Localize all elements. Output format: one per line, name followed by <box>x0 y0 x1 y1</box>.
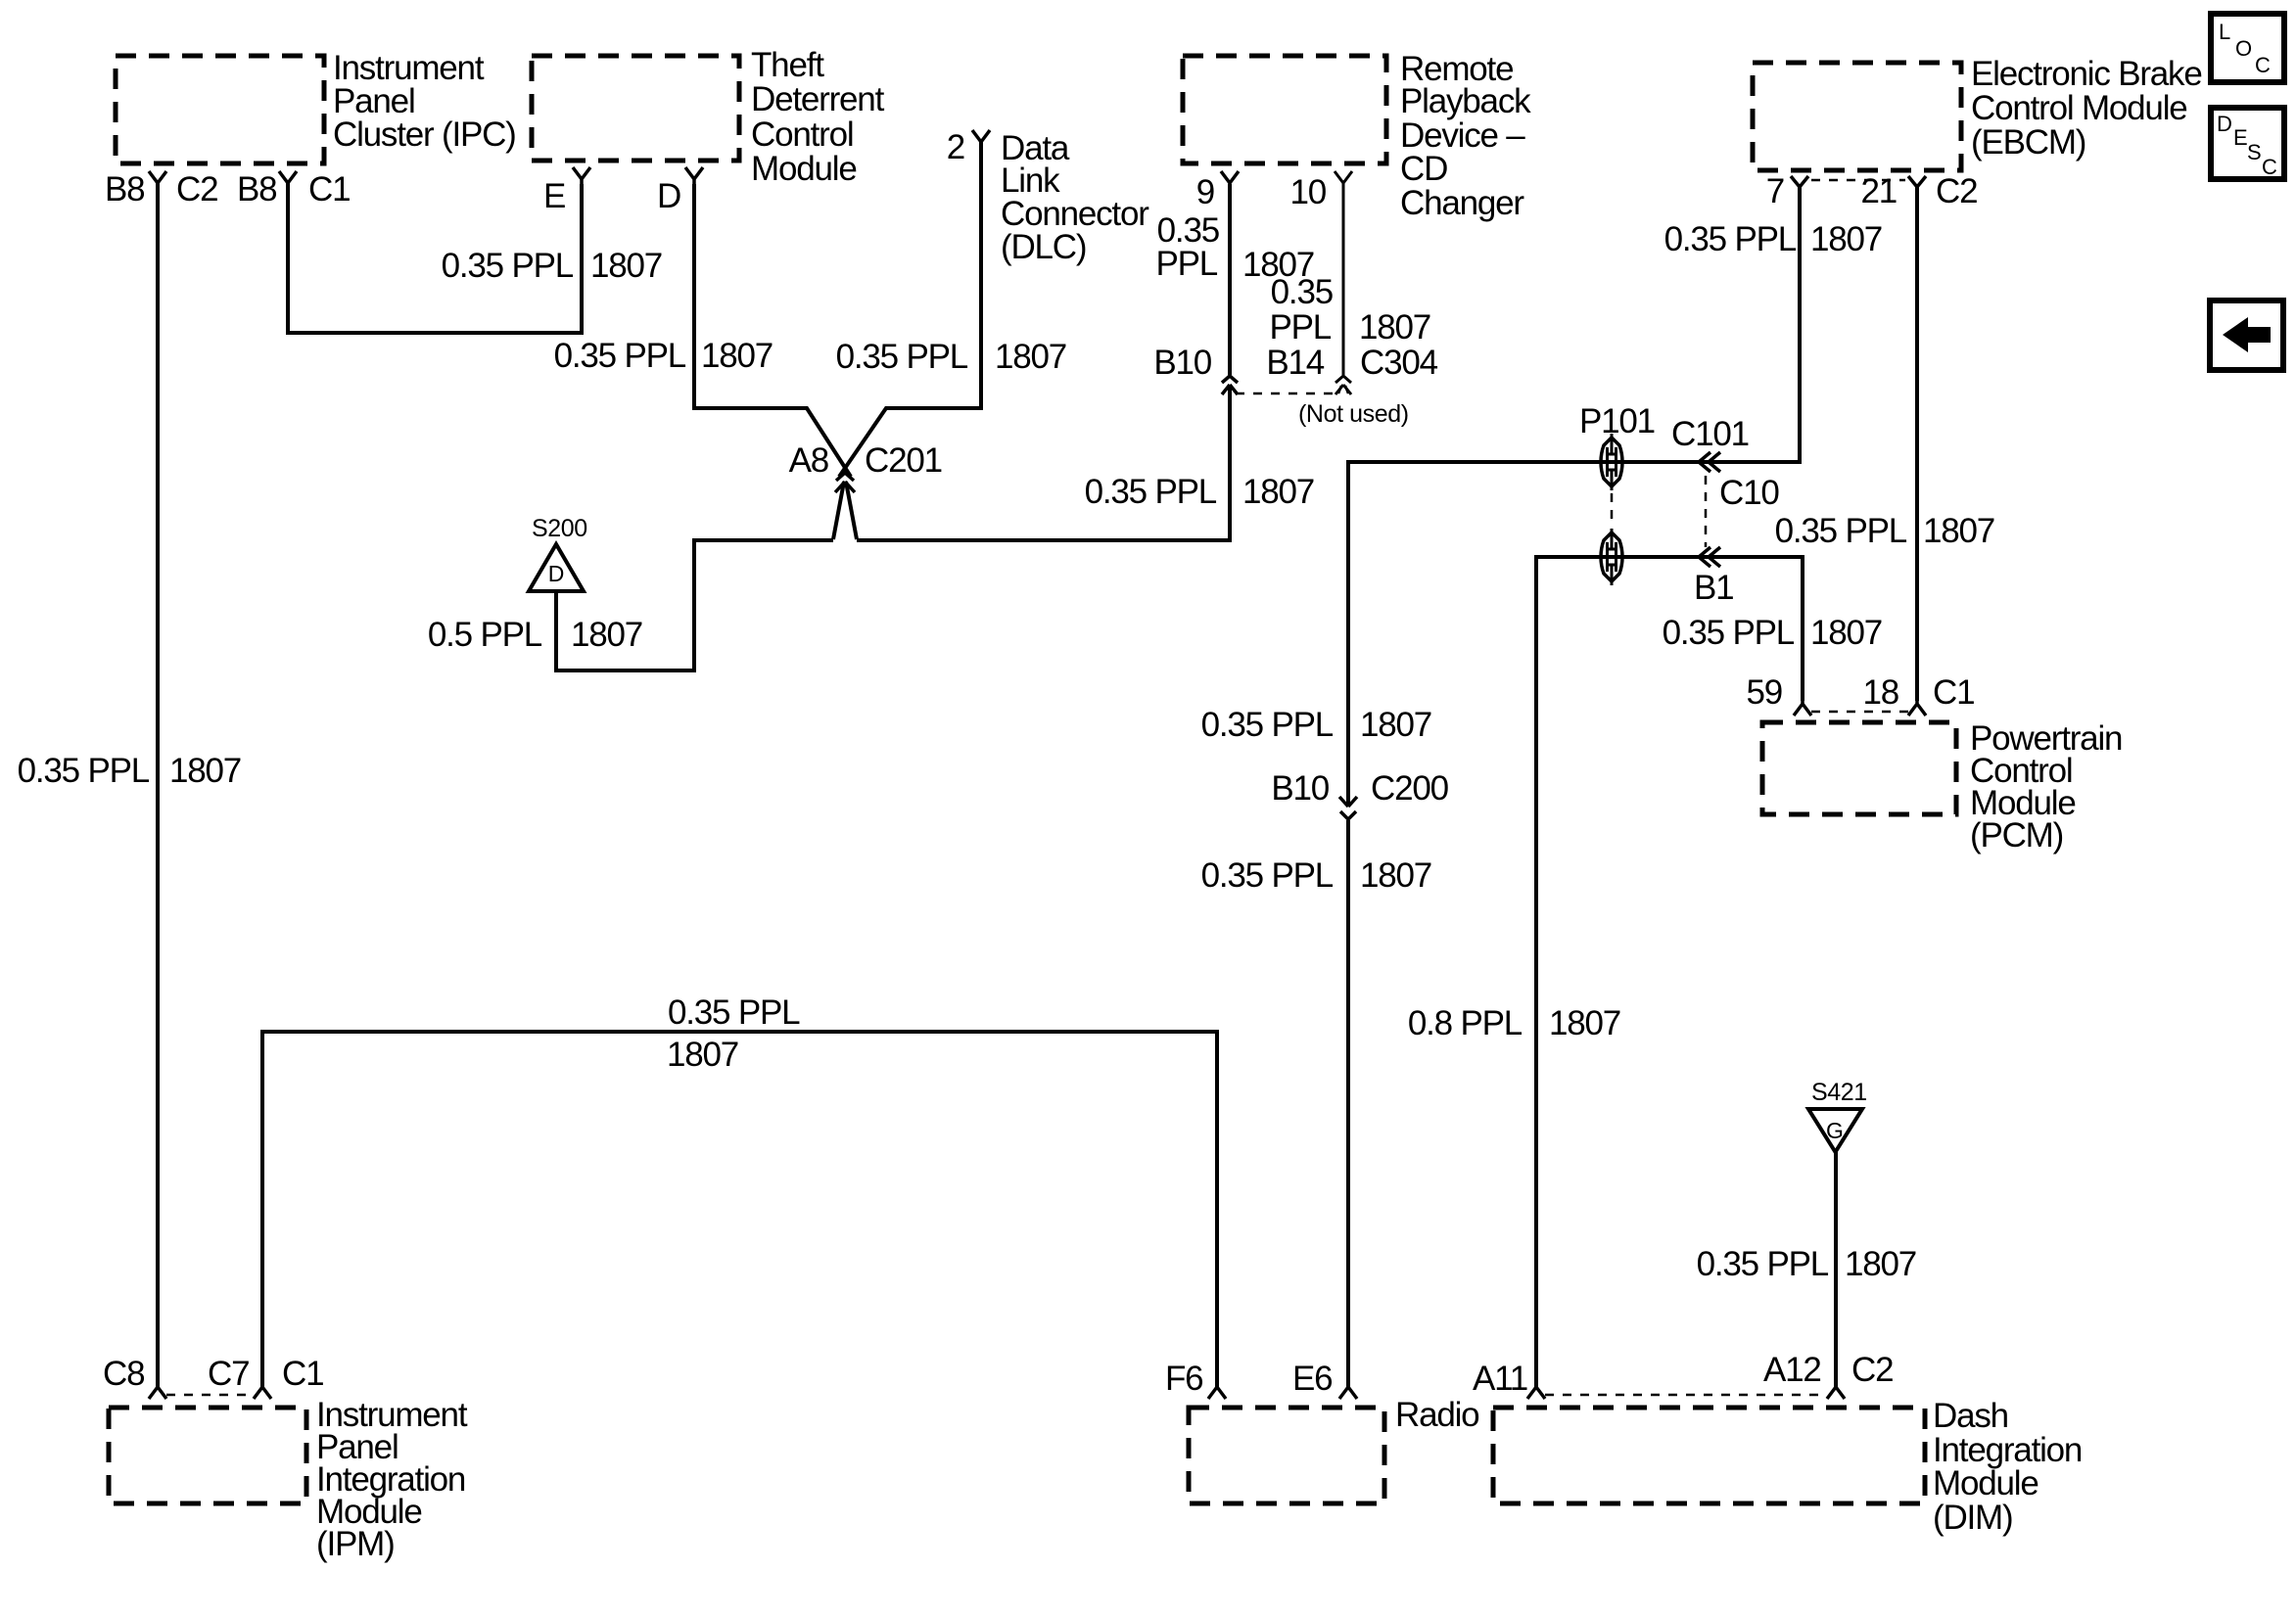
connector C304 B14 arrow (not used) <box>1335 376 1351 383</box>
svg-text:2: 2 <box>947 128 964 166</box>
splice S421 triangle <box>1808 1109 1862 1152</box>
dashed link P101 grommets <box>1611 493 1614 527</box>
dashed link IPM pins <box>166 1394 254 1397</box>
svg-text:Dash: Dash <box>1933 1397 2008 1435</box>
dashed link PCM C1 pins <box>1811 711 1908 714</box>
pin Theft E <box>573 167 590 185</box>
svg-text:0.35 PPL: 0.35 PPL <box>442 247 574 285</box>
dashed not-used tie line C304 <box>1236 393 1339 395</box>
svg-text:D: D <box>657 177 680 215</box>
pin DIM A11 <box>1527 1381 1545 1399</box>
svg-text:O: O <box>2235 36 2252 61</box>
svg-text:Radio: Radio <box>1395 1396 1478 1434</box>
svg-text:Cluster (IPC): Cluster (IPC) <box>333 115 516 154</box>
svg-text:59: 59 <box>1746 673 1782 712</box>
module box Radio <box>1189 1408 1384 1503</box>
svg-text:Control: Control <box>751 115 853 154</box>
svg-text:C304: C304 <box>1360 344 1438 382</box>
svg-text:S200: S200 <box>532 515 587 542</box>
svg-text:C1: C1 <box>1933 673 1974 712</box>
svg-text:E: E <box>2233 125 2248 150</box>
svg-text:PPL: PPL <box>1269 308 1331 346</box>
wire EBCM 7 through C101 to C200 and Radio E6 <box>1348 184 1800 805</box>
module box PCM <box>1762 722 1956 814</box>
svg-text:Control Module: Control Module <box>1971 89 2187 127</box>
svg-text:(Not used): (Not used) <box>1298 400 1409 428</box>
pin EBCM 7 <box>1791 176 1808 193</box>
svg-text:B8: B8 <box>105 170 144 208</box>
svg-text:1807: 1807 <box>1549 1004 1620 1042</box>
svg-text:0.35 PPL: 0.35 PPL <box>668 993 800 1032</box>
connector P101 grommet lower <box>1601 529 1622 585</box>
svg-text:1807: 1807 <box>1845 1245 1916 1283</box>
svg-text:1807: 1807 <box>1360 856 1431 895</box>
dashed link EBCM C2 pins <box>1811 179 1905 182</box>
svg-text:0.35: 0.35 <box>1271 273 1333 311</box>
dashed link DIM pins <box>1545 1394 1827 1397</box>
svg-text:D: D <box>548 561 565 586</box>
svg-text:Changer: Changer <box>1400 184 1524 222</box>
svg-text:0.35 PPL: 0.35 PPL <box>554 337 686 375</box>
wire IPC C1-B8 to Theft E <box>288 181 582 333</box>
svg-text:E: E <box>543 177 565 215</box>
svg-text:C1: C1 <box>282 1355 323 1393</box>
svg-text:PPL: PPL <box>1155 245 1217 283</box>
svg-text:7: 7 <box>1766 172 1784 210</box>
svg-text:0.35 PPL: 0.35 PPL <box>1664 220 1797 258</box>
connector C101 arrow lower <box>1699 547 1720 567</box>
connector P101 grommet upper <box>1601 434 1622 490</box>
svg-text:S: S <box>2247 140 2262 164</box>
svg-text:21: 21 <box>1860 172 1897 210</box>
pin Theft D <box>685 167 703 185</box>
svg-text:0.35 PPL: 0.35 PPL <box>1201 856 1334 895</box>
svg-text:P101: P101 <box>1579 402 1655 440</box>
icon back-arrow <box>2223 317 2271 352</box>
pin IPM C8 <box>149 1381 166 1399</box>
wire C200 B10 to Radio E6 <box>1346 820 1350 1388</box>
wire DLC 2 to C201 A8 <box>839 142 981 477</box>
svg-text:B8: B8 <box>237 170 276 208</box>
svg-text:0.35 PPL: 0.35 PPL <box>1663 614 1795 652</box>
svg-text:0.35 PPL: 0.35 PPL <box>1201 706 1334 744</box>
wire Theft D to C201 A8 <box>694 184 851 477</box>
svg-text:B10: B10 <box>1153 344 1211 382</box>
svg-text:Electronic Brake: Electronic Brake <box>1971 55 2202 93</box>
module box Remote Playback Device CD Changer <box>1183 56 1386 163</box>
svg-text:Module: Module <box>1933 1464 2038 1502</box>
pin DIM A12 C2 <box>1827 1381 1845 1399</box>
pin DLC 2 <box>972 130 990 148</box>
wire RPD 9 to B10 C304 <box>1228 184 1232 375</box>
svg-text:1807: 1807 <box>169 752 241 790</box>
svg-text:B14: B14 <box>1266 344 1324 382</box>
icon LOC box <box>2211 14 2284 82</box>
wire S421 to DIM A12 <box>1834 1152 1838 1388</box>
svg-text:C1: C1 <box>308 170 350 208</box>
svg-text:0.35 PPL: 0.35 PPL <box>836 338 968 376</box>
svg-text:Module: Module <box>751 150 857 188</box>
svg-text:B1: B1 <box>1694 569 1733 607</box>
wire IPM C1-C7 to Radio F6 <box>262 1032 1217 1388</box>
wire RPD 10 to B14 C304 <box>1342 184 1345 375</box>
pin Radio E6 <box>1339 1381 1357 1399</box>
dashed link C101/C10 <box>1705 476 1708 547</box>
pin IPC B8 C2 <box>149 171 166 189</box>
wire splice S200 to C201 branch and C304 B10 <box>556 540 833 670</box>
svg-text:(IPM): (IPM) <box>316 1525 395 1563</box>
module box IPC <box>116 56 324 163</box>
pin RPD 10 <box>1335 171 1352 189</box>
svg-text:0.5 PPL: 0.5 PPL <box>428 616 542 654</box>
module box IPM <box>109 1408 306 1503</box>
svg-text:(EBCM): (EBCM) <box>1971 123 2085 162</box>
connector C201 arrow <box>836 473 854 481</box>
svg-text:C2: C2 <box>1851 1351 1893 1389</box>
icon DESC box <box>2211 108 2284 179</box>
svg-text:C201: C201 <box>865 441 942 480</box>
wire <box>857 385 1230 540</box>
svg-text:Playback: Playback <box>1400 82 1531 120</box>
svg-text:0.35 PPL: 0.35 PPL <box>1775 512 1907 550</box>
wire EBCM 21 C2 to PCM 18 C1 <box>1915 184 1919 701</box>
svg-text:L: L <box>2219 20 2230 44</box>
connector C304 B10 arrow <box>1222 376 1238 383</box>
svg-text:(PCM): (PCM) <box>1970 816 2063 855</box>
svg-text:1807: 1807 <box>571 616 642 654</box>
svg-text:1807: 1807 <box>701 337 773 375</box>
svg-text:F6: F6 <box>1165 1360 1202 1398</box>
svg-text:10: 10 <box>1289 173 1326 211</box>
module box DIM <box>1493 1408 1925 1503</box>
svg-text:G: G <box>1826 1118 1844 1143</box>
svg-text:1807: 1807 <box>995 338 1066 376</box>
svg-text:A8: A8 <box>789 441 828 480</box>
svg-text:1807: 1807 <box>1360 706 1431 744</box>
svg-text:1807: 1807 <box>1810 614 1882 652</box>
svg-text:CD: CD <box>1400 150 1447 188</box>
svg-text:1807: 1807 <box>1810 220 1882 258</box>
svg-text:C2: C2 <box>176 170 217 208</box>
svg-text:B10: B10 <box>1271 769 1329 808</box>
svg-text:E6: E6 <box>1292 1360 1332 1398</box>
svg-text:(DLC): (DLC) <box>1001 228 1086 266</box>
wire IPC C2-B8 to IPM C8 <box>156 181 160 1388</box>
svg-text:C: C <box>2255 53 2271 77</box>
svg-text:Theft: Theft <box>751 46 824 84</box>
svg-text:1807: 1807 <box>1359 308 1430 346</box>
svg-text:1807: 1807 <box>667 1036 738 1074</box>
pin IPM C7 C1 <box>254 1381 271 1399</box>
svg-text:C: C <box>2262 155 2277 179</box>
svg-text:1807: 1807 <box>1242 473 1314 511</box>
svg-text:D: D <box>2217 112 2232 136</box>
svg-text:0.8 PPL: 0.8 PPL <box>1408 1004 1523 1042</box>
connector C200 arrow <box>1339 797 1357 807</box>
pin PCM 59 <box>1794 698 1811 716</box>
svg-text:0.35 PPL: 0.35 PPL <box>1697 1245 1829 1283</box>
pin PCM 18 <box>1908 698 1926 716</box>
svg-text:S421: S421 <box>1811 1079 1867 1106</box>
svg-text:C7: C7 <box>208 1355 249 1393</box>
svg-text:A12: A12 <box>1763 1351 1821 1389</box>
wire PCM 59 B1 through C101 to DIM A11 <box>1536 557 1803 1388</box>
svg-text:18: 18 <box>1862 673 1898 712</box>
svg-text:9: 9 <box>1196 173 1214 211</box>
icon back-arrow box <box>2210 300 2283 370</box>
svg-text:C101: C101 <box>1671 415 1749 453</box>
svg-text:A11: A11 <box>1473 1360 1527 1398</box>
pin IPC B8 C1 <box>279 171 297 189</box>
svg-text:C8: C8 <box>103 1355 144 1393</box>
splice S200 triangle <box>529 544 584 591</box>
connector C101 arrow upper <box>1699 452 1720 472</box>
svg-text:1807: 1807 <box>1923 512 1994 550</box>
pin Radio F6 <box>1208 1381 1226 1399</box>
svg-text:0.35 PPL: 0.35 PPL <box>18 752 150 790</box>
svg-text:1807: 1807 <box>590 247 662 285</box>
module box EBCM <box>1753 63 1961 170</box>
module box Theft Deterrent Control Module <box>532 56 739 161</box>
svg-text:Deterrent: Deterrent <box>751 80 885 118</box>
pin RPD 9 <box>1221 171 1239 189</box>
svg-text:C10: C10 <box>1719 474 1779 512</box>
svg-text:0.35 PPL: 0.35 PPL <box>1085 473 1217 511</box>
pin EBCM 21 <box>1908 176 1926 193</box>
svg-text:(DIM): (DIM) <box>1933 1499 2012 1537</box>
svg-text:C2: C2 <box>1936 172 1977 210</box>
svg-text:C200: C200 <box>1371 769 1449 808</box>
